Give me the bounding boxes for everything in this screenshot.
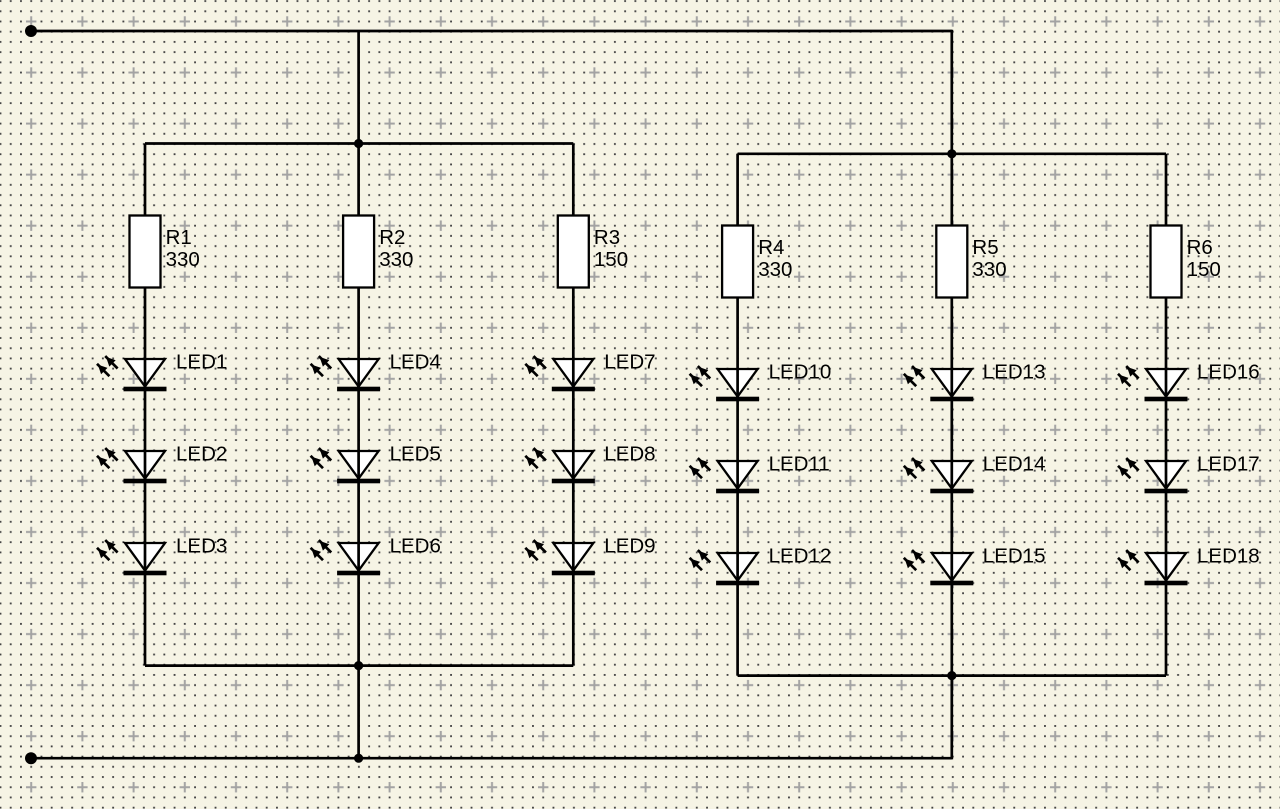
LED LED8 bbox=[525, 448, 595, 483]
wire right group bottom rail bbox=[738, 674, 1166, 677]
svg-text:LED8: LED8 bbox=[604, 443, 655, 466]
svg-text:LED10: LED10 bbox=[769, 361, 832, 384]
LED LED1 bbox=[97, 356, 167, 391]
LED LED17 bbox=[1118, 458, 1188, 493]
svg-text:LED3: LED3 bbox=[176, 535, 227, 558]
resistor R2 bbox=[343, 216, 374, 288]
resistor R3 bbox=[558, 216, 589, 288]
junction right bottom rail bbox=[947, 671, 956, 680]
svg-text:330: 330 bbox=[972, 258, 1006, 281]
svg-text:330: 330 bbox=[379, 248, 413, 271]
LED LED11 bbox=[690, 458, 760, 493]
LED LED15 bbox=[904, 550, 974, 585]
svg-text:LED4: LED4 bbox=[390, 351, 441, 374]
svg-text:LED1: LED1 bbox=[176, 351, 227, 374]
svg-text:LED7: LED7 bbox=[604, 351, 655, 374]
wire branch R5 column bbox=[950, 154, 953, 676]
svg-text:LED9: LED9 bbox=[604, 535, 655, 558]
LED LED18 bbox=[1118, 550, 1188, 585]
LED LED5 bbox=[311, 448, 381, 483]
svg-text:R3: R3 bbox=[594, 226, 620, 249]
wire branch R1 column bbox=[144, 144, 147, 666]
wire right group top rail bbox=[738, 152, 1166, 155]
junction left bottom rail bbox=[354, 661, 363, 670]
wire bottom feeder right bbox=[950, 676, 953, 760]
resistor R5 bbox=[936, 226, 967, 298]
svg-text:LED6: LED6 bbox=[390, 535, 441, 558]
terminal node top-left bbox=[25, 25, 37, 37]
svg-text:LED13: LED13 bbox=[983, 361, 1046, 384]
svg-text:R1: R1 bbox=[166, 226, 192, 249]
wire branch R3 column bbox=[572, 144, 575, 666]
LED LED13 bbox=[904, 366, 974, 401]
svg-text:LED17: LED17 bbox=[1197, 453, 1260, 476]
wire top bus bbox=[31, 30, 952, 33]
resistor R1 bbox=[130, 216, 161, 288]
LED LED6 bbox=[311, 540, 381, 575]
wire left group top rail bbox=[145, 142, 573, 145]
svg-text:330: 330 bbox=[758, 258, 792, 281]
LED LED16 bbox=[1118, 366, 1188, 401]
svg-text:LED12: LED12 bbox=[769, 545, 832, 568]
junction left top rail bbox=[354, 139, 363, 148]
svg-text:LED14: LED14 bbox=[983, 453, 1046, 476]
wire feeder left group bbox=[357, 31, 360, 144]
svg-text:R4: R4 bbox=[758, 236, 784, 259]
svg-text:R2: R2 bbox=[379, 226, 405, 249]
junction bottom bus bbox=[354, 754, 363, 763]
LED LED12 bbox=[690, 550, 760, 585]
LED LED4 bbox=[311, 356, 381, 391]
wire bottom bus bbox=[31, 757, 952, 760]
wire branch R4 column bbox=[736, 154, 739, 676]
resistor R4 bbox=[722, 226, 753, 298]
svg-text:150: 150 bbox=[594, 248, 628, 271]
LED LED3 bbox=[97, 540, 167, 575]
terminal node bottom-left bbox=[25, 752, 37, 764]
svg-text:LED15: LED15 bbox=[983, 545, 1046, 568]
wire left group bottom rail bbox=[145, 664, 573, 667]
wire branch R2 column bbox=[357, 144, 360, 666]
LED LED7 bbox=[525, 356, 595, 391]
svg-text:LED11: LED11 bbox=[769, 453, 830, 476]
svg-text:LED5: LED5 bbox=[390, 443, 441, 466]
svg-text:LED18: LED18 bbox=[1197, 545, 1260, 568]
svg-text:LED16: LED16 bbox=[1197, 361, 1260, 384]
resistor R6 bbox=[1151, 226, 1182, 298]
wire bottom feeder left bbox=[357, 666, 360, 759]
svg-text:330: 330 bbox=[166, 248, 200, 271]
junction right top rail bbox=[947, 149, 956, 158]
wire branch R6 column bbox=[1165, 154, 1168, 676]
svg-text:R5: R5 bbox=[972, 236, 998, 259]
svg-text:150: 150 bbox=[1187, 258, 1221, 281]
svg-text:LED2: LED2 bbox=[176, 443, 227, 466]
LED LED14 bbox=[904, 458, 974, 493]
LED LED10 bbox=[690, 366, 760, 401]
wire feeder right group bbox=[950, 30, 953, 154]
LED LED9 bbox=[525, 540, 595, 575]
svg-text:R6: R6 bbox=[1187, 236, 1213, 259]
LED LED2 bbox=[97, 448, 167, 483]
